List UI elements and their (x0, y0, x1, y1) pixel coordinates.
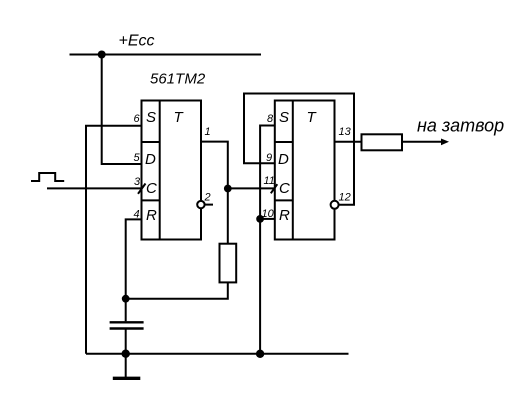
input pulse symbol (31, 173, 64, 181)
svg-text:9: 9 (266, 152, 272, 164)
wire R2 to output (402, 141, 444, 143)
ground symbol (113, 354, 141, 379)
resistor R2 (362, 134, 403, 150)
inversion circle pin 2 (197, 201, 204, 208)
svg-text:на затвор: на затвор (417, 116, 504, 136)
wire R pin 4 to RC node (126, 219, 142, 298)
svg-text:T: T (307, 109, 318, 126)
wire S pin 6 to ground (left vertical) (86, 126, 142, 354)
capacitor C1 (110, 322, 144, 328)
junction RC node (122, 295, 130, 303)
flip-flop DD1.2 body (275, 101, 335, 240)
svg-text:6: 6 (134, 113, 141, 125)
junction +Ecc rail / D wire (98, 51, 106, 59)
svg-text:S: S (146, 109, 156, 126)
svg-text:C: C (279, 180, 290, 197)
wire node to C pin 11 (228, 187, 275, 189)
svg-text:13: 13 (339, 126, 352, 138)
wire input to C pin 3 (47, 187, 142, 189)
svg-text:R: R (279, 207, 290, 224)
svg-text:561ТМ2: 561ТМ2 (150, 71, 206, 88)
wire +Ecc rail to D input pin 5 (102, 55, 142, 165)
svg-text:+Ecc: +Ecc (119, 33, 155, 50)
wire R1 bottom to RC node (126, 282, 228, 298)
wire node to resistor R1 (227, 189, 229, 244)
svg-text:S: S (279, 109, 289, 126)
svg-text:8: 8 (267, 113, 274, 125)
dynamic input slash DD1.2 C (271, 184, 278, 193)
wire +Ecc power rail (70, 54, 262, 56)
svg-text:R: R (146, 207, 157, 224)
wire C1 to ground rail (125, 330, 127, 354)
svg-text:3: 3 (134, 176, 141, 188)
wire R pin 10 stub (260, 218, 275, 220)
junction node pin1 / C11 / R1 (224, 185, 232, 193)
resistor R1 (220, 244, 237, 283)
svg-text:C: C (146, 180, 157, 197)
wire ground rail (86, 353, 349, 355)
wire stub pin 2 (205, 204, 213, 206)
junction C1 / ground rail (122, 350, 130, 358)
junction R pin 10 / ground vertical (256, 215, 264, 223)
wire RC node to capacitor C1 (125, 299, 127, 322)
svg-text:D: D (145, 151, 156, 168)
inversion circle pin 12 (331, 201, 339, 209)
wire Q output pin 1 (201, 142, 228, 189)
flip-flop DD1.1 body (142, 101, 202, 240)
svg-text:11: 11 (264, 175, 275, 187)
svg-text:12: 12 (339, 192, 351, 204)
wire feedback pin 12 to D pin 9 (244, 94, 354, 205)
wire S pin 8 to ground rail (vertical x=260) (260, 126, 275, 354)
dynamic input slash DD1.1 C (138, 184, 146, 194)
svg-text:T: T (174, 109, 185, 126)
output arrowhead (441, 139, 449, 146)
svg-text:D: D (278, 151, 289, 168)
svg-text:1: 1 (205, 126, 211, 138)
junction ground vertical / ground rail (256, 350, 264, 358)
svg-text:5: 5 (134, 152, 141, 164)
wire Q pin 13 to resistor R2 (335, 141, 362, 143)
